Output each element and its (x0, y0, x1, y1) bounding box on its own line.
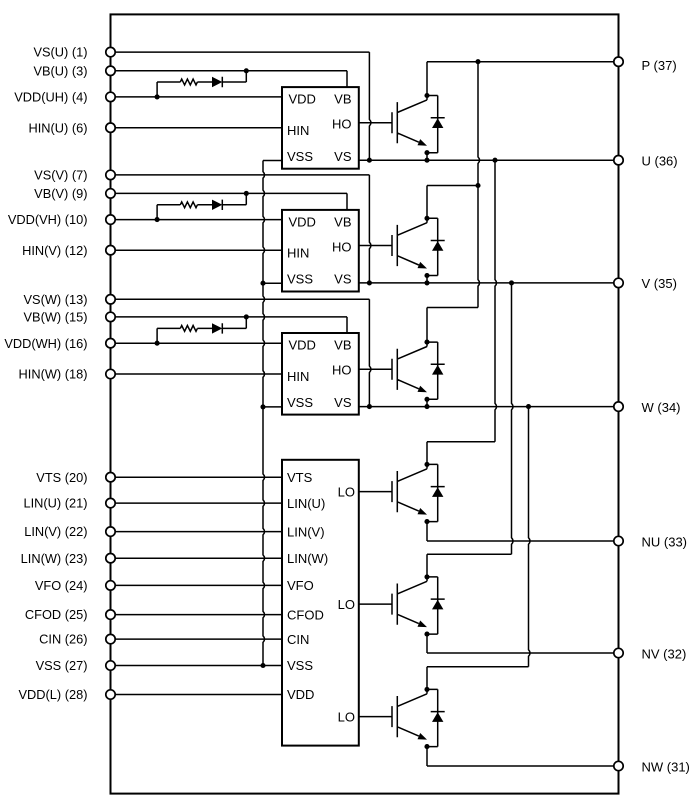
svg-text:HIN: HIN (287, 246, 309, 261)
svg-text:VDD: VDD (289, 92, 316, 107)
svg-text:VB: VB (334, 214, 351, 229)
svg-text:NV (32): NV (32) (642, 646, 687, 661)
svg-text:VS: VS (334, 395, 352, 410)
svg-text:W (34): W (34) (642, 400, 681, 415)
svg-text:HO: HO (332, 239, 352, 254)
svg-text:VSS: VSS (287, 395, 313, 410)
svg-text:LO: LO (338, 709, 355, 724)
svg-text:VB(U) (3): VB(U) (3) (33, 63, 87, 78)
svg-text:VB(W) (15): VB(W) (15) (24, 310, 88, 325)
svg-text:LIN(V) (22): LIN(V) (22) (24, 524, 87, 539)
svg-text:CIN: CIN (287, 632, 309, 647)
svg-text:V (35): V (35) (642, 276, 677, 291)
svg-text:VS(V) (7): VS(V) (7) (34, 168, 87, 183)
svg-text:VTS (20): VTS (20) (36, 470, 87, 485)
svg-text:VTS: VTS (287, 470, 313, 485)
svg-text:HIN(U) (6): HIN(U) (6) (29, 120, 88, 135)
svg-text:VDD(VH) (10): VDD(VH) (10) (8, 212, 88, 227)
svg-text:NW (31): NW (31) (642, 759, 690, 774)
svg-text:LO: LO (338, 484, 355, 499)
svg-text:VB: VB (334, 337, 351, 352)
svg-text:LIN(W) (23): LIN(W) (23) (21, 551, 88, 566)
svg-text:VDD(L) (28): VDD(L) (28) (19, 687, 88, 702)
svg-text:HIN(V) (12): HIN(V) (12) (22, 243, 87, 258)
svg-text:LIN(V): LIN(V) (287, 524, 325, 539)
svg-text:VDD: VDD (289, 214, 316, 229)
svg-text:HIN: HIN (287, 369, 309, 384)
svg-text:VFO (24): VFO (24) (35, 578, 88, 593)
svg-text:CFOD (25): CFOD (25) (25, 607, 88, 622)
svg-text:LIN(U) (21): LIN(U) (21) (24, 496, 88, 511)
svg-text:VB(V) (9): VB(V) (9) (34, 186, 87, 201)
svg-text:VDD: VDD (289, 337, 316, 352)
svg-text:P (37): P (37) (642, 58, 677, 73)
svg-text:HIN: HIN (287, 123, 309, 138)
svg-text:VSS: VSS (287, 149, 313, 164)
svg-text:HO: HO (332, 363, 352, 378)
svg-text:VSS: VSS (287, 658, 313, 673)
svg-text:VS: VS (334, 149, 352, 164)
svg-text:VDD(WH) (16): VDD(WH) (16) (4, 336, 87, 351)
svg-text:HO: HO (332, 117, 352, 132)
svg-text:VDD: VDD (287, 687, 314, 702)
svg-text:LIN(U): LIN(U) (287, 496, 325, 511)
svg-text:VDD(UH) (4): VDD(UH) (4) (14, 90, 87, 105)
svg-text:LO: LO (338, 597, 355, 612)
svg-text:VSS (27): VSS (27) (36, 658, 88, 673)
svg-text:HIN(W) (18): HIN(W) (18) (19, 367, 88, 382)
svg-text:VS(W) (13): VS(W) (13) (24, 292, 88, 307)
svg-text:LIN(W): LIN(W) (287, 551, 328, 566)
svg-text:VS: VS (334, 272, 352, 287)
svg-text:NU (33): NU (33) (642, 534, 688, 549)
svg-text:CIN (26): CIN (26) (39, 632, 87, 647)
svg-text:VFO: VFO (287, 578, 314, 593)
svg-text:VSS: VSS (287, 272, 313, 287)
svg-text:U (36): U (36) (642, 153, 678, 168)
svg-text:CFOD: CFOD (287, 607, 324, 622)
svg-text:VS(U) (1): VS(U) (1) (33, 45, 87, 60)
svg-text:VB: VB (334, 92, 351, 107)
